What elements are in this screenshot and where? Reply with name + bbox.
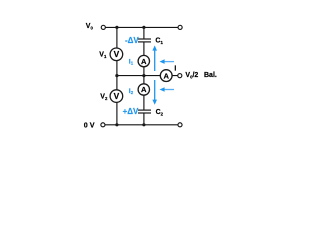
terminal top right xyxy=(178,25,182,29)
junction bottom-left xyxy=(115,123,118,126)
svg-text:Bal.: Bal. xyxy=(204,72,217,79)
terminal 0V (bottom left) xyxy=(101,123,105,127)
svg-text:I: I xyxy=(174,66,176,73)
ammeter A2 xyxy=(138,84,149,95)
capacitor C1 xyxy=(138,39,151,42)
wire right branch middle (C1 to C2) xyxy=(143,42,145,110)
terminal balance (V0/2) xyxy=(178,74,182,78)
junction middle-left xyxy=(115,74,118,77)
arrow up (current out of C1 branch) xyxy=(152,45,157,71)
svg-text:-ΔV: -ΔV xyxy=(125,36,139,45)
arrow left upper (I1 flow) xyxy=(160,59,175,64)
svg-text:A: A xyxy=(163,71,169,80)
junction top-right xyxy=(142,26,145,29)
arrow left lower (I2 flow) xyxy=(160,87,175,92)
svg-text:+ΔV: +ΔV xyxy=(123,107,139,116)
capacitor C2 xyxy=(138,110,151,113)
wire middle balance rail xyxy=(117,75,178,77)
svg-text:V: V xyxy=(114,91,120,101)
voltmeter V2 xyxy=(110,90,123,103)
voltmeter V1 xyxy=(110,48,123,61)
wire right branch lower (C2 bottom plate down) xyxy=(143,113,145,125)
terminal bottom right xyxy=(178,123,182,127)
arrow down (current into C2 branch) xyxy=(152,80,157,105)
junction bottom-right xyxy=(142,123,145,126)
junction top-left xyxy=(115,26,118,29)
ammeter A3 (balance current) xyxy=(160,70,172,82)
wire right branch upper (to C1 top plate) xyxy=(143,27,145,39)
junction middle-right xyxy=(142,74,145,77)
svg-text:0 V: 0 V xyxy=(84,120,95,129)
svg-text:V: V xyxy=(114,49,120,59)
svg-text:A: A xyxy=(141,57,147,66)
svg-text:A: A xyxy=(141,85,147,94)
wire bottom rail xyxy=(103,124,180,126)
terminal V0 (top left) xyxy=(101,25,105,29)
wire left branch xyxy=(116,27,118,124)
svg-text:V0/2: V0/2 xyxy=(185,72,198,79)
wire top rail xyxy=(103,26,180,28)
ammeter A1 xyxy=(138,55,149,66)
